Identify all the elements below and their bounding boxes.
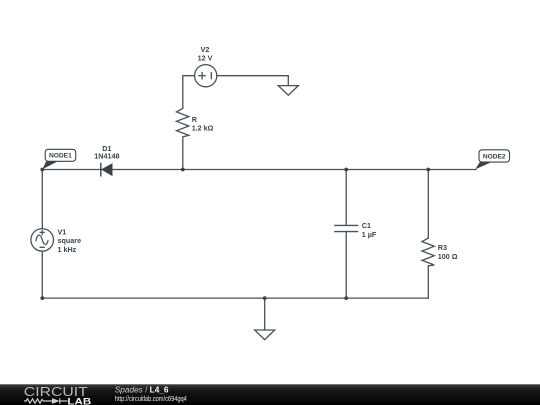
node junction C1 bottom [344, 296, 348, 300]
wire left rail lower (V1 bottom to bottom rail) [41, 251, 43, 298]
wire V2 right lead to ground [217, 76, 288, 86]
svg-text:100 Ω: 100 Ω [438, 252, 458, 261]
svg-text:1.2 kΩ: 1.2 kΩ [192, 124, 214, 133]
svg-text:1 kHz: 1 kHz [58, 245, 77, 254]
svg-text:square: square [58, 236, 82, 245]
voltage source V2 [195, 65, 217, 87]
wire C1 bottom lead [345, 232, 347, 298]
svg-text:NODE1: NODE1 [49, 153, 72, 160]
label C1 value [362, 221, 377, 239]
label V1 value [58, 227, 82, 254]
svg-text:R3: R3 [438, 243, 447, 252]
junction dots [40, 168, 430, 300]
wire V2 left lead [183, 76, 195, 109]
svg-text:1 µF: 1 µF [362, 230, 377, 239]
svg-text:V1: V1 [58, 227, 67, 236]
wire bottom rail [42, 297, 428, 299]
resistor R [177, 108, 189, 137]
node junction ground stem [263, 296, 267, 300]
label D1 value [94, 144, 119, 161]
wire R3 top lead [427, 170, 429, 239]
wire top rail NODE1 to NODE2 [42, 169, 476, 171]
diode D1 [101, 163, 112, 177]
label R value [192, 115, 214, 133]
node flag NODE2 [475, 150, 509, 170]
wire ground stem bottom [264, 298, 266, 330]
ground (V2) [278, 86, 298, 96]
node junction C1 top [344, 168, 348, 172]
node junction R3 top [426, 168, 430, 172]
svg-text:NODE2: NODE2 [483, 153, 506, 160]
resistor R3 [422, 238, 434, 266]
node junction V1 bottom corner [40, 296, 44, 300]
svg-text:12 V: 12 V [198, 54, 213, 63]
svg-text:1N4148: 1N4148 [94, 152, 119, 161]
label V2 value [198, 45, 213, 63]
svg-text:V2: V2 [201, 45, 210, 54]
logo resistor zigzag and diode [24, 398, 68, 403]
capacitor C1 [334, 225, 358, 231]
wire R3 bottom lead [427, 266, 429, 298]
node junction R bottom [181, 168, 185, 172]
ground (bottom) [255, 330, 275, 340]
node flag NODE1 [42, 149, 75, 169]
wire left rail upper (NODE1 to V1 top) [41, 170, 43, 229]
svg-text:C1: C1 [362, 221, 371, 230]
svg-text:http://circuitlab.com/c694gq4: http://circuitlab.com/c694gq4 [115, 394, 187, 403]
wire R bottom lead [182, 137, 184, 170]
footer bar [0, 384, 540, 405]
svg-text:LAB: LAB [67, 396, 91, 405]
wire C1 top lead [345, 170, 347, 226]
node A junction (NODE1 corner) [40, 168, 44, 172]
svg-text:R: R [192, 115, 198, 124]
label R3 value [438, 243, 458, 261]
voltage source V1 [31, 229, 54, 252]
